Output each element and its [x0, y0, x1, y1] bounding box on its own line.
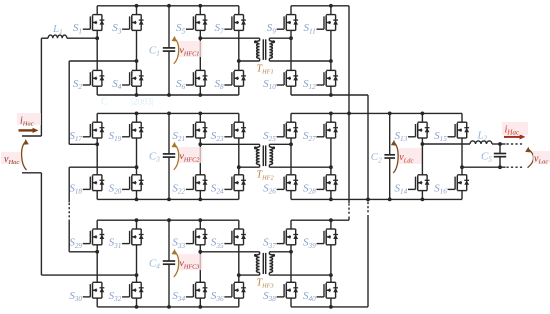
wire row2 output-bridge bottom rail: [291, 198, 462, 200]
junction primary top at S33 leg: [198, 250, 202, 254]
junction row1 bottom rail at C bus: [167, 93, 171, 97]
svg-text:S9: S9: [267, 22, 277, 35]
junction secondary bottom at S11 leg: [329, 59, 333, 63]
junction row2 bottom rail at S20 leg: [135, 198, 139, 202]
transistor S5: [186, 15, 208, 31]
transistor S36: [224, 282, 246, 298]
capacitor C4: [168, 220, 170, 261]
voltage arrow v_Hac: [22, 142, 27, 171]
svg-text:S7: S7: [215, 22, 225, 35]
current arrow i_Lac: [504, 136, 520, 138]
transistor S16: [448, 175, 470, 191]
voltage arrow v_HFC3: [179, 254, 203, 270]
svg-text:S2: S2: [73, 78, 83, 91]
svg-text:S18: S18: [69, 182, 82, 195]
svg-text:S22: S22: [172, 182, 185, 195]
transistor S9: [277, 15, 299, 31]
junction secondary top at S37 leg: [289, 250, 293, 254]
transistor S30: [83, 282, 105, 298]
svg-text:L2: L2: [477, 130, 488, 143]
transistor S39: [317, 229, 339, 245]
junction row2 top rail at S27 leg: [329, 112, 333, 116]
wire T_HF2 primary bottom: [239, 166, 260, 168]
svg-text:S39: S39: [303, 237, 316, 250]
transistor S26: [277, 175, 299, 191]
junction S1/S2 midpoint: [95, 36, 99, 40]
svg-text:S30: S30: [69, 290, 82, 303]
junction row1 top rail at S5 leg: [198, 4, 202, 8]
wire leg S7/S8: [238, 6, 240, 15]
wire leg S9/S10: [290, 6, 292, 15]
wire leg S33/S34: [199, 220, 201, 229]
wire T_HF1 primary bottom: [239, 60, 260, 62]
svg-text:S12: S12: [303, 78, 316, 91]
svg-text:S28: S28: [303, 182, 316, 195]
wire row1 output-bridge top rail: [291, 5, 349, 7]
wire leg S21/S22: [199, 113, 201, 122]
svg-text:S11: S11: [304, 22, 316, 35]
wire row2 S19/S20 midpoint to row3 input (with continuation dots): [69, 166, 136, 168]
transistor S2: [83, 70, 105, 86]
svg-text:L1: L1: [52, 23, 63, 36]
wire leg S5/S6: [199, 6, 201, 15]
junction row2 top rail at S21 leg: [198, 112, 202, 116]
wire leg S3/S4: [136, 6, 138, 15]
svg-text:C2: C2: [371, 151, 382, 164]
junction row3 top rail at S39 leg: [329, 218, 333, 222]
svg-text:S13: S13: [395, 130, 408, 143]
svg-text:S37: S37: [263, 237, 276, 250]
wire row2 left-section bottom rail: [97, 198, 239, 200]
svg-text:S34: S34: [172, 290, 185, 303]
wire row3 S31/S32 midpoint to input lower terminal: [41, 274, 136, 276]
junction row1 top rail at C bus: [167, 4, 171, 8]
wire leg S37/S38: [290, 220, 292, 229]
junction positive bus at DC-link top rail: [347, 112, 351, 116]
svg-text:S15: S15: [434, 130, 447, 143]
svg-text:S24: S24: [211, 182, 224, 195]
junction primary top at S21 leg: [198, 142, 202, 146]
junction negative bus at DC-link bottom rail: [366, 198, 370, 202]
transistor S33: [186, 229, 208, 245]
junction row1 bottom rail at S4 leg: [135, 93, 139, 97]
junction row2 S17/S18 midpoint: [95, 142, 99, 146]
wire row3 left-section top rail: [97, 219, 239, 221]
wire positive bus vertical (row1 output + to DC link and row3): [348, 6, 350, 203]
capacitor C2: [389, 113, 391, 154]
wire T_HF1 secondary top: [269, 37, 291, 39]
svg-text:S17: S17: [69, 130, 82, 143]
svg-text:S8: S8: [215, 78, 225, 91]
svg-text:S40: S40: [303, 290, 316, 303]
wire leg S31/S32: [136, 220, 138, 229]
wire leg S39/S40: [330, 220, 332, 229]
transistor S22: [186, 175, 208, 191]
svg-text:S10: S10: [263, 78, 276, 91]
transistor S35: [224, 229, 246, 245]
voltage arrow v_HFC2: [179, 147, 203, 163]
wire row1 left-section top rail: [97, 5, 239, 7]
svg-text:S16: S16: [434, 182, 447, 195]
transistor S24: [224, 175, 246, 191]
transistor S19: [122, 122, 144, 138]
svg-text:THF3: THF3: [257, 277, 274, 289]
transistor S12: [317, 70, 339, 86]
wire row3 output-bridge top rail: [291, 219, 349, 221]
svg-text:C3: C3: [149, 150, 160, 163]
svg-text:S6: S6: [176, 78, 186, 91]
wire T_HF3 secondary bottom: [269, 274, 331, 276]
inductor L2: [470, 141, 492, 144]
svg-text:S4: S4: [112, 78, 122, 91]
junction row2 bottom rail at S28 leg: [329, 198, 333, 202]
svg-text:C: C: [101, 97, 108, 108]
voltage arrow v_HFC1: [179, 41, 203, 57]
junction row3 top rail at S31 leg: [135, 218, 139, 222]
svg-text:S5: S5: [176, 22, 186, 35]
junction row3 bottom rail at C bus: [167, 305, 171, 309]
junction row3 top rail at C bus: [167, 218, 171, 222]
label v_Lac: [533, 151, 550, 163]
junction row3 bottom rail at S32 leg: [135, 305, 139, 309]
wire T_HF2 secondary bottom: [269, 166, 331, 168]
junction row2 top rail at S19 leg: [135, 112, 139, 116]
transistor S13: [408, 122, 430, 138]
label i_Lac: [502, 122, 528, 135]
svg-text:S1: S1: [73, 22, 82, 35]
svg-text:THF1: THF1: [257, 63, 274, 75]
wire T_HF2 primary top: [200, 143, 259, 145]
svg-text:C1: C1: [149, 44, 160, 57]
wire row2 output-bridge top rail: [291, 112, 462, 114]
wire T_HF1 primary top: [200, 37, 259, 39]
wire leg S17/S18: [96, 113, 98, 122]
junction primary bottom at S36 leg: [237, 273, 241, 277]
svg-text:S23: S23: [211, 130, 224, 143]
svg-text:S36: S36: [211, 290, 224, 303]
wire row2 left-section top rail: [97, 112, 239, 114]
transistor S10: [277, 70, 299, 86]
transistor S6: [186, 70, 208, 86]
transistor S28: [317, 175, 339, 191]
transistor S11: [317, 15, 339, 31]
transistor S18: [83, 175, 105, 191]
svg-text:|2003|: |2003|: [131, 98, 154, 108]
wire row3 left-section bottom rail: [97, 306, 239, 308]
transistor S31: [122, 229, 144, 245]
svg-text:S32: S32: [109, 290, 122, 303]
svg-text:S33: S33: [172, 237, 185, 250]
capacitor C5: [499, 144, 501, 154]
junction row3 bottom rail at S34 leg: [198, 305, 202, 309]
junction C5 bottom: [498, 165, 502, 169]
junction DC-link top rail at S13 leg: [421, 112, 425, 116]
transistor S38: [277, 282, 299, 298]
svg-text:S38: S38: [263, 290, 276, 303]
wire input upper terminal to L1: [41, 37, 48, 39]
current arrow i_Hac: [19, 129, 34, 131]
wire leg S29/S30: [96, 220, 98, 229]
wire leg S19/S20: [136, 113, 138, 122]
transistor S8: [224, 70, 246, 86]
transistor S1: [83, 15, 105, 31]
transistor S3: [122, 15, 144, 31]
transistor S4: [122, 70, 144, 86]
transistor S20: [122, 175, 144, 191]
junction primary top at S5 leg: [198, 36, 202, 40]
junction row1 S3/S4 midpoint: [135, 59, 139, 63]
junction row1 bottom rail at S6 leg: [198, 93, 202, 97]
junction row2 bottom rail at S22 leg: [198, 198, 202, 202]
transistor S21: [186, 122, 208, 138]
svg-text:S14: S14: [395, 182, 408, 195]
junction C2 top: [388, 112, 392, 116]
transistor S14: [408, 175, 430, 191]
junction secondary top at S9 leg: [289, 36, 293, 40]
wire T_HF3 primary bottom: [239, 274, 260, 276]
wire T_HF3 primary top: [200, 251, 259, 253]
junction C5 top: [498, 142, 502, 146]
transistor S27: [317, 122, 339, 138]
wire leg S15/S16: [461, 113, 463, 122]
capacitor C1: [168, 6, 170, 48]
transistor S7: [224, 15, 246, 31]
label v_Hac: [1, 152, 21, 164]
junction row1 bottom rail at S12 leg: [329, 93, 333, 97]
transistor S23: [224, 122, 246, 138]
svg-text:S26: S26: [263, 182, 276, 195]
svg-text:C4: C4: [149, 257, 160, 270]
transformer T_HF2: [254, 144, 275, 167]
wire leg S35/S36: [238, 220, 240, 229]
wire T_HF3 secondary top: [269, 251, 291, 253]
svg-text:S25: S25: [263, 130, 276, 143]
wire leg S11/S12: [330, 6, 332, 15]
wire row1 left-section bottom rail: [97, 94, 239, 96]
svg-text:S27: S27: [303, 130, 316, 143]
transistor S32: [122, 282, 144, 298]
wire leg S1/S2: [96, 6, 98, 15]
svg-text:S35: S35: [211, 237, 224, 250]
wire negative bus vertical (row1 output - to DC link and row3): [367, 95, 369, 202]
wire L2 to output+: [492, 143, 506, 145]
wire T_HF2 secondary top: [269, 143, 291, 145]
transistor S25: [277, 122, 299, 138]
wire leg S23/S24: [238, 113, 240, 122]
capacitor C3: [168, 113, 170, 153]
junction row1 top rail at S3 leg: [135, 4, 139, 8]
label i_Hac: [17, 113, 41, 125]
junction row3 top rail at S33 leg: [198, 218, 202, 222]
transistor S15: [448, 122, 470, 138]
junction row2 bottom rail at C bus: [167, 198, 171, 202]
transistor S34: [186, 282, 208, 298]
svg-text:S21: S21: [172, 130, 185, 143]
wire T_HF1 secondary bottom: [269, 60, 331, 62]
junction S13/S14 midpoint: [421, 142, 425, 146]
wire L1 to S1/S2 midpoint: [67, 37, 97, 39]
junction row2 S19/S20 midpoint: [135, 165, 139, 169]
svg-text:S31: S31: [109, 237, 122, 250]
transistor S37: [277, 229, 299, 245]
junction primary bottom at S8 leg: [237, 59, 241, 63]
wire row1 output-bridge bottom rail: [291, 94, 368, 96]
junction S15/S16 midpoint: [460, 165, 464, 169]
junction secondary bottom at S39 leg: [329, 273, 333, 277]
transformer T_HF1: [254, 38, 275, 61]
junction secondary bottom at S27 leg: [329, 165, 333, 169]
svg-text:S3: S3: [112, 22, 122, 35]
transistor S40: [317, 282, 339, 298]
junction secondary top at S25 leg: [289, 142, 293, 146]
svg-text:C5: C5: [481, 151, 492, 164]
wire row1 S3/S4 midpoint to row2 input: [69, 60, 136, 62]
junction DC-link bottom rail at S14 leg: [421, 198, 425, 202]
junction row3 bottom rail at S40 leg: [329, 305, 333, 309]
svg-text:S20: S20: [109, 182, 122, 195]
wire leg S13/S14: [421, 113, 423, 122]
junction C2 bottom: [388, 198, 392, 202]
svg-text:S19: S19: [109, 130, 122, 143]
junction row3 S31/S32 midpoint: [135, 273, 139, 277]
transistor S29: [83, 229, 105, 245]
voltage arrow v_Ldc: [398, 148, 422, 164]
transistor S17: [83, 122, 105, 138]
wire leg S27/S28: [330, 113, 332, 122]
wire leg S25/S26: [290, 113, 292, 122]
junction row2 top rail at C bus: [167, 112, 171, 116]
junction primary bottom at S24 leg: [237, 165, 241, 169]
wire S13/S14 midpoint to L2: [422, 143, 470, 145]
svg-text:THF2: THF2: [257, 170, 275, 182]
junction row1 top rail at S11 leg: [329, 4, 333, 8]
inductor L1: [48, 35, 67, 38]
voltage arrow v_Lac: [528, 149, 534, 168]
wire row3 output-bridge bottom rail: [291, 306, 368, 308]
wire S15/S16 midpoint to output-: [462, 166, 506, 168]
svg-text:S29: S29: [69, 237, 82, 250]
transformer T_HF3: [254, 252, 275, 275]
junction row3 S29/S30 midpoint: [95, 250, 99, 254]
